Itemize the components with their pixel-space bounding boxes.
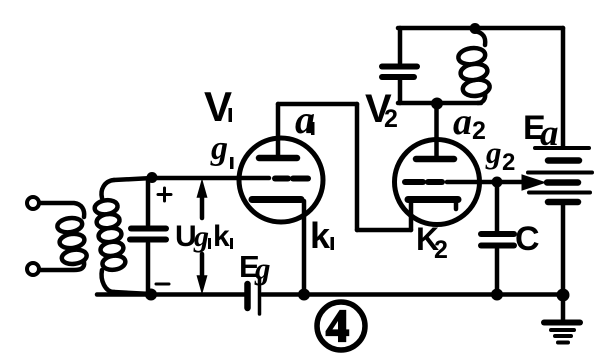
svg-text:2: 2 (384, 105, 398, 133)
node battery rail junction (557, 289, 570, 302)
capacitor tank bottom lead (398, 80, 403, 103)
svg-text:g: g (485, 135, 502, 170)
wire secondary top to grid rail (114, 178, 152, 180)
node g2 junction (492, 177, 503, 188)
wire top terminal to primary coil (40, 203, 84, 217)
capacitor C lead top (495, 185, 500, 231)
arrow Ug1k1 bottom (198, 254, 207, 292)
wire bottom rail left (97, 292, 244, 297)
wire grid rail g1 (152, 176, 269, 181)
tube V2 envelope (395, 140, 480, 225)
node bottom input junction (145, 289, 157, 301)
tube V2 cathode hook (454, 202, 459, 209)
svg-text:2: 2 (472, 117, 486, 145)
capacitor tank left lead (398, 28, 403, 63)
inductor tank coil (457, 31, 490, 103)
svg-text:a: a (295, 97, 315, 142)
plus sign (158, 188, 171, 201)
capacitor C plates (481, 234, 514, 246)
label Ea (523, 109, 559, 154)
svg-text:g: g (193, 220, 209, 253)
node C rail junction (491, 289, 503, 301)
label K2 (416, 221, 448, 264)
wire to cathode k2 (357, 228, 411, 233)
wire tank bottom rail (398, 101, 481, 106)
figure number circle 4 (317, 302, 365, 350)
wire vertical coupling (355, 104, 360, 230)
arrow Ug1k1 top (198, 181, 207, 218)
svg-text:4: 4 (326, 300, 349, 351)
node top input junction (147, 172, 158, 183)
grid g2 dashes (405, 179, 442, 185)
svg-text:k: k (310, 215, 331, 256)
tube V2 cathode bar (408, 196, 458, 203)
wire secondary bottom to rail (114, 292, 151, 294)
wire tank top rail (398, 26, 563, 31)
label V1 (204, 83, 232, 130)
tube V1 anode plate (259, 155, 297, 162)
tube V2 anode plate (416, 156, 454, 163)
ground lead (561, 295, 566, 320)
inductor L1 primary coil (56, 216, 87, 265)
wire grid g2 lead (447, 180, 524, 185)
tube V1 cathode bar (252, 196, 301, 203)
svg-text:V: V (204, 83, 232, 130)
svg-text:a: a (453, 101, 472, 143)
wire cathode k2 lead (409, 202, 414, 230)
input terminal top (27, 197, 39, 209)
capacitor tank plates (382, 67, 417, 78)
capacitor C1 input tank (130, 178, 166, 294)
input terminal bottom (27, 263, 39, 275)
wire battery top lead (561, 28, 566, 146)
wire bottom terminal to primary coil (40, 262, 84, 270)
tube V1 envelope (239, 138, 323, 222)
label V2 (365, 87, 398, 133)
svg-text:2: 2 (434, 236, 448, 264)
wire a1 top to right (278, 102, 357, 107)
label a1 (295, 97, 315, 142)
battery Eg cell (248, 278, 260, 314)
label k1 (310, 215, 334, 256)
svg-text:C: C (515, 220, 540, 258)
label Eg (239, 249, 271, 286)
label a2 (453, 101, 486, 145)
label Ug1k1 (175, 220, 233, 253)
capacitor C lead bottom (495, 249, 500, 294)
arrow to battery tap (522, 175, 545, 190)
wire anode a2 lead (434, 103, 439, 156)
wire cathode k1 lead (302, 201, 307, 294)
node tank coil top (470, 23, 481, 34)
wire battery bottom lead (561, 205, 566, 295)
svg-text:2: 2 (502, 149, 515, 176)
wire bottom rail right (262, 292, 563, 297)
svg-text:g: g (254, 251, 271, 286)
svg-text:k: k (213, 220, 230, 253)
grid g1 dashes (275, 176, 308, 182)
node tank anode junction (431, 98, 443, 110)
battery Ea plates (528, 148, 592, 202)
node k1 rail junction (298, 289, 310, 301)
ground bars (544, 323, 580, 343)
wire anode a1 lead (276, 104, 281, 155)
minus sign (156, 283, 169, 286)
svg-text:g: g (210, 130, 228, 167)
label g1 (210, 130, 234, 169)
svg-text:a: a (540, 113, 559, 154)
inductor L2 secondary coil (94, 180, 127, 292)
label g2 (485, 135, 515, 176)
